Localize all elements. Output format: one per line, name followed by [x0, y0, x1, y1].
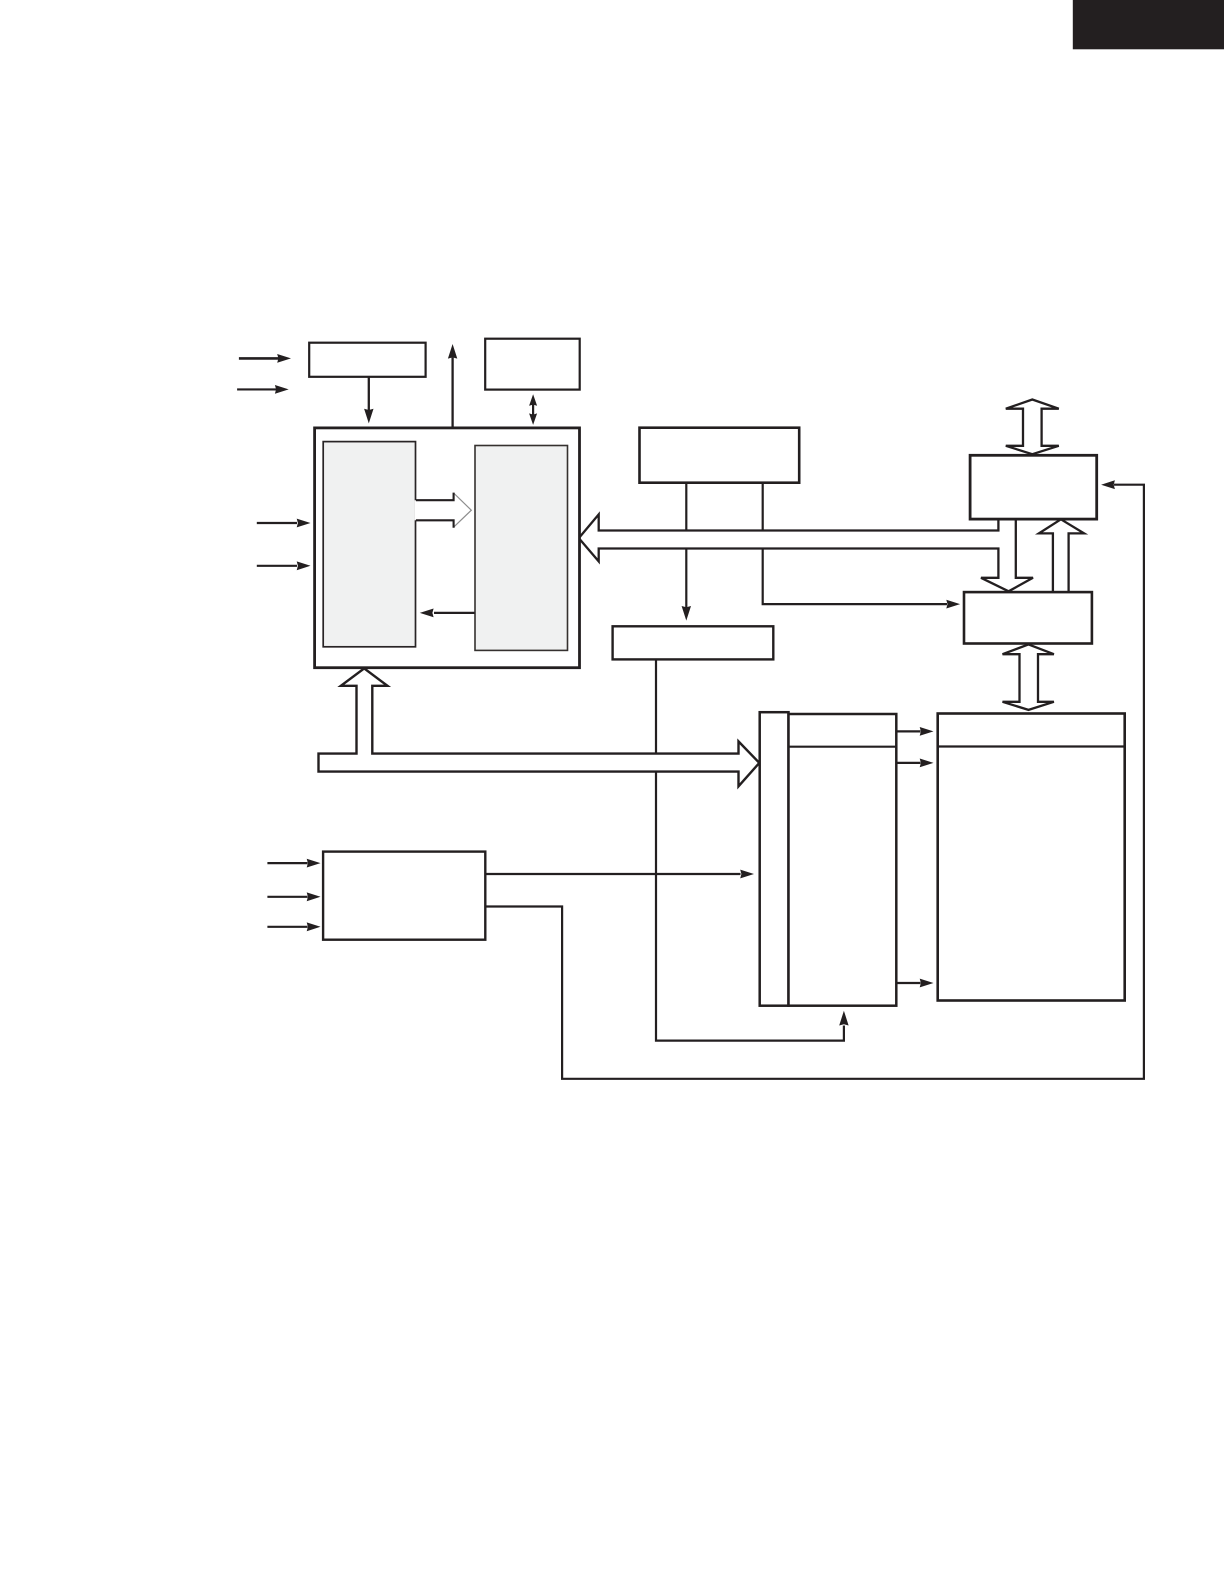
wire: double-headed arrow between box B and main IC box [529, 394, 537, 425]
block arrow: vertical double-headed arrow between box F and box G [1003, 644, 1054, 710]
wire: arrow from right sub-block back to left sub-block [420, 609, 475, 618]
box H header divider line [789, 746, 897, 748]
wire: box I input arrow 1 [267, 859, 320, 868]
block arrow: wide right arrow into box H merged with up arrow into main IC box [319, 668, 760, 786]
gray sub-block left inside main IC box [323, 442, 415, 647]
box E [970, 455, 1097, 519]
wire: box A down into main IC box [364, 377, 373, 424]
wire: box C to box F (corner at 762.7,604.1) [763, 483, 960, 609]
wire: box I input arrow 2 [267, 892, 320, 901]
block arrow: wide left arrow into main IC box merged with down arrow from box E to box F [579, 514, 1033, 591]
wire: left input arrow 1 into main IC box [257, 519, 311, 528]
wire: box I output to box H left side [485, 870, 754, 879]
block arrow: vertical double-headed arrow above box E [1006, 400, 1059, 455]
wire: box D down to bottom then up into box H [656, 659, 849, 1041]
box A (top small box) [309, 343, 425, 377]
wire: left input arrow 2 into main IC box [257, 561, 311, 570]
wire: top-left input arrow 1 [239, 354, 291, 363]
wire: feedback from box I bottom output to box E right side [485, 480, 1144, 1079]
wire: box H to box G arrow 1 [898, 727, 934, 736]
box H wide section [789, 714, 897, 1006]
wire: box H to box G arrow 3 [898, 979, 934, 988]
block arrow: white arrow from left sub-block to right sub-block [415, 493, 472, 527]
block arrow: up arrow from box F to box E [1039, 519, 1084, 592]
wire: box I input arrow 3 [267, 922, 320, 931]
box G header divider line [938, 745, 1125, 747]
wire: up arrow out of main IC box top [448, 344, 457, 429]
box D [613, 626, 774, 659]
box I (bottom-left input box) [323, 852, 485, 940]
box G (tall right box) [938, 714, 1125, 1001]
wire: top-left input arrow 2 [237, 385, 289, 394]
box H narrow column [760, 712, 789, 1006]
box C [640, 428, 800, 483]
black page-header tab (top right) [1073, 0, 1224, 49]
main IC box [315, 428, 580, 668]
gray sub-block right inside main IC box [475, 446, 568, 651]
box F [964, 592, 1092, 643]
box B (top box right of box A) [485, 339, 580, 390]
wire: box C to box D vertical [682, 483, 691, 621]
wire: box H to box G arrow 2 [898, 759, 934, 768]
